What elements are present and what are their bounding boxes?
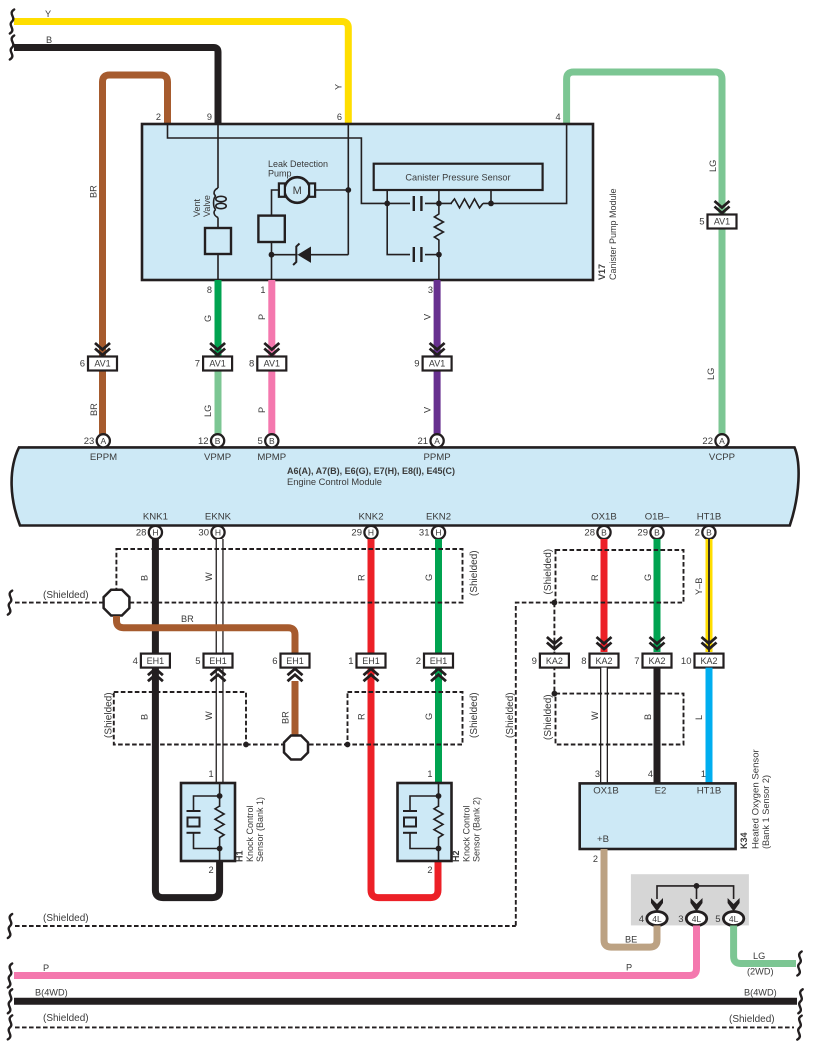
svg-text:4L: 4L bbox=[729, 914, 739, 924]
connector 4 EH1 box bbox=[141, 654, 170, 668]
motor brush right bbox=[309, 183, 315, 196]
svg-text:29: 29 bbox=[351, 528, 362, 539]
svg-text:LG: LG bbox=[708, 160, 718, 172]
svg-text:2: 2 bbox=[208, 865, 213, 875]
svg-text:EH1: EH1 bbox=[147, 656, 165, 666]
svg-text:B: B bbox=[654, 527, 660, 537]
svg-text:A: A bbox=[100, 436, 106, 446]
wire R KNK2 (red) bbox=[371, 539, 438, 898]
svg-text:R: R bbox=[357, 574, 367, 581]
wire B KNK1 (black) bbox=[155, 539, 219, 898]
break squiggles bottom bbox=[8, 1015, 12, 1039]
wire B below KA2-7 (black) bbox=[654, 668, 661, 783]
wire G O1B- (green) bbox=[654, 539, 661, 652]
knock control sensor H1 box bbox=[181, 783, 235, 861]
canister pressure sensor stub right bbox=[490, 190, 492, 203]
svg-text:(2WD): (2WD) bbox=[747, 967, 774, 977]
link wires in gray block bbox=[657, 886, 734, 899]
svg-text:9: 9 bbox=[414, 359, 419, 370]
svg-text:(Shielded): (Shielded) bbox=[543, 694, 554, 740]
motor M circle bbox=[284, 177, 310, 203]
svg-text:LG: LG bbox=[706, 368, 716, 380]
ECM pin 29 B bbox=[650, 526, 663, 539]
node dots on sensor row bbox=[384, 201, 390, 207]
svg-text:OX1B: OX1B bbox=[591, 512, 617, 523]
svg-text:P: P bbox=[626, 963, 632, 973]
connector 8 AV1 arrows bbox=[264, 343, 279, 350]
wire G from module pin 8 bbox=[215, 280, 222, 363]
svg-text:Vent: Vent bbox=[192, 198, 202, 217]
svg-text:Sensor (Bank 1): Sensor (Bank 1) bbox=[255, 797, 265, 862]
module V17 Canister Pump Module box bbox=[142, 124, 593, 280]
ECM pin 29 H bbox=[364, 526, 377, 539]
svg-text:31: 31 bbox=[419, 528, 430, 539]
connector 5 EH1 arrows bbox=[211, 669, 226, 676]
vent valve coil + wire from pin 9 bbox=[217, 124, 219, 188]
svg-text:5: 5 bbox=[715, 914, 720, 925]
lower capacitor branch wire bbox=[387, 203, 410, 254]
svg-text:(Shielded): (Shielded) bbox=[104, 692, 115, 738]
svg-text:8: 8 bbox=[581, 656, 586, 667]
svg-text:O1B–: O1B– bbox=[645, 512, 670, 523]
svg-text:R: R bbox=[357, 713, 367, 720]
svg-text:(Bank 1 Sensor 2): (Bank 1 Sensor 2) bbox=[761, 775, 771, 849]
svg-text:(Shielded): (Shielded) bbox=[505, 692, 516, 738]
svg-text:AV1: AV1 bbox=[714, 217, 730, 227]
svg-text:B(4WD): B(4WD) bbox=[35, 988, 68, 998]
connector 4 4L oval bbox=[647, 912, 667, 926]
svg-text:Y–B: Y–B bbox=[694, 578, 704, 595]
connector 7 KA2 box bbox=[643, 654, 672, 668]
svg-text:8: 8 bbox=[249, 359, 254, 370]
svg-text:M: M bbox=[293, 185, 302, 197]
node dot lower bbox=[436, 252, 442, 258]
dashed shield line bottom bbox=[15, 1026, 794, 1028]
svg-text:AV1: AV1 bbox=[264, 359, 280, 369]
svg-text:2: 2 bbox=[695, 528, 700, 539]
connector 8 KA2 arrows bbox=[597, 637, 612, 644]
svg-text:P: P bbox=[43, 963, 49, 973]
wire W EKNK (white double line) bbox=[216, 539, 224, 783]
wire resistor to pin 4 line bbox=[483, 124, 567, 203]
connector 8 AV1 box bbox=[257, 357, 286, 371]
dashed line to left margin bbox=[15, 602, 103, 604]
connector 5 AV1 box bbox=[708, 215, 737, 229]
wire motor right to vertical bbox=[315, 189, 348, 191]
svg-text:AV1: AV1 bbox=[94, 359, 110, 369]
connector 3 4L oval bbox=[686, 912, 706, 926]
wire LG (light green) right bbox=[567, 72, 722, 434]
svg-text:HT1B: HT1B bbox=[697, 786, 722, 797]
svg-text:6: 6 bbox=[80, 359, 85, 370]
svg-text:21: 21 bbox=[418, 436, 429, 447]
H2 piezo element bbox=[410, 796, 439, 811]
shield dashed box lower (O2) bbox=[556, 694, 684, 745]
svg-text:Leak Detection: Leak Detection bbox=[268, 159, 328, 169]
svg-text:28: 28 bbox=[584, 528, 595, 539]
ECM pin 22 A bbox=[715, 434, 728, 447]
svg-text:+B: +B bbox=[597, 834, 609, 845]
svg-text:HT1B: HT1B bbox=[697, 512, 722, 523]
connector 5 EH1 box bbox=[204, 654, 233, 668]
svg-text:12: 12 bbox=[198, 436, 209, 447]
svg-text:Pump: Pump bbox=[268, 169, 292, 179]
svg-text:EH1: EH1 bbox=[430, 656, 448, 666]
ECM pin 28 B bbox=[597, 526, 610, 539]
svg-text:EH1: EH1 bbox=[209, 656, 227, 666]
wire L below KA2-10 (light blue) bbox=[706, 668, 713, 783]
svg-text:W: W bbox=[204, 711, 214, 720]
ECM pin 31 H bbox=[432, 526, 445, 539]
svg-text:7: 7 bbox=[195, 359, 200, 370]
svg-text:Canister Pressure Sensor: Canister Pressure Sensor bbox=[405, 173, 510, 183]
svg-text:4L: 4L bbox=[652, 914, 662, 924]
resistor horizontal bbox=[451, 199, 483, 208]
wire Y-B HT1B (yellow-black) bbox=[706, 539, 713, 652]
svg-text:7: 7 bbox=[634, 656, 639, 667]
ECM pin 28 H bbox=[149, 526, 162, 539]
connector 6 AV1 arrows bbox=[95, 343, 110, 350]
svg-text:V: V bbox=[423, 313, 433, 320]
connector 2 EH1 box bbox=[424, 654, 453, 668]
svg-text:2: 2 bbox=[593, 854, 598, 864]
svg-text:4: 4 bbox=[639, 914, 644, 925]
svg-text:BR: BR bbox=[181, 614, 194, 624]
svg-text:B: B bbox=[601, 527, 607, 537]
gray connector block bbox=[631, 874, 749, 925]
H2 internal resistor bbox=[438, 783, 440, 807]
wire BR below EH1-6 to shield octagon 2 bbox=[292, 681, 299, 736]
connector 6 AV1 box bbox=[88, 357, 117, 371]
svg-text:P: P bbox=[257, 314, 267, 320]
ECM pin 23 A bbox=[97, 434, 110, 447]
capacitor C lower bbox=[413, 247, 415, 262]
svg-text:30: 30 bbox=[198, 528, 209, 539]
connector 9 AV1 arrows bbox=[430, 343, 445, 350]
svg-text:A6(A), A7(B), E6(G), E7(H), E8: A6(A), A7(B), E6(G), E7(H), E8(I), E45(C… bbox=[287, 466, 455, 476]
break squiggle LG right bbox=[797, 952, 801, 976]
svg-text:VPMP: VPMP bbox=[204, 452, 231, 463]
svg-text:8: 8 bbox=[207, 285, 212, 295]
svg-text:5: 5 bbox=[258, 436, 263, 447]
svg-text:B: B bbox=[643, 714, 653, 720]
pump relay box bbox=[258, 216, 284, 242]
ECM pin 12 B bbox=[211, 434, 224, 447]
break squiggle left shield bbox=[8, 591, 12, 615]
ECM pin 21 A bbox=[431, 434, 444, 447]
svg-text:Sensor (Bank 2): Sensor (Bank 2) bbox=[472, 797, 482, 862]
capacitor C upper bbox=[413, 196, 415, 211]
svg-text:B: B bbox=[140, 575, 150, 581]
svg-text:4: 4 bbox=[555, 112, 560, 122]
svg-text:4: 4 bbox=[648, 769, 653, 779]
wire BR (brown) bbox=[103, 75, 168, 434]
svg-text:KNK2: KNK2 bbox=[358, 512, 383, 523]
wire BR shield to EH1-6 bbox=[117, 616, 296, 654]
svg-text:(Shielded): (Shielded) bbox=[43, 1013, 89, 1024]
svg-text:5: 5 bbox=[699, 217, 704, 228]
svg-text:EKN2: EKN2 bbox=[426, 512, 451, 523]
svg-text:2: 2 bbox=[156, 112, 161, 122]
connector 5 AV1 arrows bbox=[715, 201, 730, 208]
svg-text:2: 2 bbox=[416, 656, 421, 667]
knock control sensor H2 box bbox=[398, 783, 452, 861]
svg-text:H: H bbox=[152, 527, 158, 537]
svg-text:LG: LG bbox=[203, 405, 213, 417]
vent valve box bbox=[205, 228, 231, 254]
svg-text:KA2: KA2 bbox=[546, 656, 563, 666]
break squiggle Y left bbox=[10, 10, 14, 34]
heated oxygen sensor K34 box bbox=[580, 783, 736, 849]
svg-text:(Shielded): (Shielded) bbox=[43, 913, 89, 924]
svg-text:B: B bbox=[46, 35, 52, 45]
svg-text:28: 28 bbox=[136, 528, 147, 539]
svg-text:H1: H1 bbox=[235, 850, 245, 862]
svg-text:9: 9 bbox=[207, 112, 212, 122]
connector 6 EH1 box bbox=[281, 654, 310, 668]
svg-text:Valve: Valve bbox=[202, 195, 212, 217]
svg-text:1: 1 bbox=[427, 769, 432, 779]
svg-text:OX1B: OX1B bbox=[593, 786, 619, 797]
wire Y (yellow) top bbox=[14, 22, 348, 125]
svg-text:Engine Control Module: Engine Control Module bbox=[287, 477, 382, 487]
svg-text:A: A bbox=[719, 436, 725, 446]
svg-text:(Shielded): (Shielded) bbox=[543, 549, 554, 595]
svg-text:LG: LG bbox=[753, 951, 765, 961]
wire B(4WD) bbox=[14, 998, 797, 1005]
wire cap to resistor row bbox=[425, 202, 452, 204]
svg-text:KNK1: KNK1 bbox=[143, 512, 168, 523]
svg-text:(Shielded): (Shielded) bbox=[729, 1014, 775, 1025]
connector 5 4L arrow bbox=[728, 898, 740, 912]
svg-text:B: B bbox=[706, 527, 712, 537]
svg-text:G: G bbox=[643, 574, 653, 581]
wire V from module pin 3 bbox=[434, 280, 441, 434]
connector 1 EH1 box bbox=[357, 654, 386, 668]
svg-text:(Shielded): (Shielded) bbox=[469, 692, 480, 738]
canister pressure sensor stub mid bbox=[438, 190, 440, 203]
svg-text:3: 3 bbox=[428, 285, 433, 295]
svg-text:2: 2 bbox=[427, 865, 432, 875]
dashed shield line mid-bottom bbox=[15, 925, 516, 927]
svg-text:4: 4 bbox=[133, 656, 138, 667]
svg-text:MPMP: MPMP bbox=[257, 452, 286, 463]
svg-text:G: G bbox=[203, 315, 213, 322]
connector 9 KA2 box bbox=[540, 654, 569, 668]
svg-text:KA2: KA2 bbox=[648, 656, 665, 666]
svg-text:(Shielded): (Shielded) bbox=[43, 590, 89, 601]
svg-text:3: 3 bbox=[678, 914, 683, 925]
ECM pin 2 B bbox=[702, 526, 715, 539]
svg-text:EH1: EH1 bbox=[286, 656, 304, 666]
svg-text:6: 6 bbox=[272, 656, 277, 667]
svg-text:V: V bbox=[423, 406, 433, 413]
wire LG below AV1-7 bbox=[215, 363, 222, 434]
shield dashed box upper (O2) bbox=[556, 550, 684, 603]
canister pressure sensor stub left bbox=[386, 190, 388, 203]
svg-text:BR: BR bbox=[89, 403, 99, 416]
connector 10 KA2 box bbox=[695, 654, 724, 668]
Canister Pressure Sensor box bbox=[374, 164, 543, 190]
svg-text:KA2: KA2 bbox=[700, 656, 717, 666]
svg-text:V17: V17 bbox=[597, 264, 607, 280]
svg-text:Heated Oxygen Sensor: Heated Oxygen Sensor bbox=[751, 748, 762, 849]
svg-text:EH1: EH1 bbox=[362, 656, 380, 666]
wire P from module pin 1 bbox=[268, 280, 275, 434]
svg-text:R: R bbox=[590, 574, 600, 581]
wire motor left down through relay box bbox=[272, 190, 279, 216]
svg-text:B(4WD): B(4WD) bbox=[744, 988, 777, 998]
svg-text:G: G bbox=[424, 574, 434, 581]
svg-text:9: 9 bbox=[532, 656, 537, 667]
shield octagon 1 bbox=[104, 590, 130, 616]
svg-text:AV1: AV1 bbox=[209, 359, 225, 369]
break squiggle B left bbox=[10, 36, 14, 60]
connector 5 4L oval bbox=[723, 912, 743, 926]
connector 7 KA2 arrows bbox=[650, 637, 665, 644]
svg-text:EKNK: EKNK bbox=[205, 512, 232, 523]
motor brush left bbox=[279, 183, 285, 196]
svg-text:Y: Y bbox=[45, 9, 51, 19]
svg-text:(Shielded): (Shielded) bbox=[469, 550, 480, 596]
pump internal vertical from pin 6 bbox=[347, 124, 349, 255]
H1 piezo element bbox=[194, 796, 220, 811]
break squiggle bbox=[8, 914, 12, 938]
svg-text:BR: BR bbox=[281, 711, 291, 724]
svg-text:1: 1 bbox=[701, 769, 706, 779]
wire B (black) top bbox=[14, 48, 218, 125]
zener diode bbox=[298, 247, 312, 263]
svg-text:5: 5 bbox=[195, 656, 200, 667]
connector 3 4L arrow bbox=[691, 898, 703, 912]
dashed vertical through KA2-9 bbox=[553, 603, 555, 694]
svg-text:29: 29 bbox=[637, 528, 648, 539]
svg-text:BE: BE bbox=[625, 935, 637, 945]
wire P from 4L-3 to left margin bbox=[14, 926, 697, 976]
resistor vertical bbox=[434, 203, 443, 254]
svg-text:B: B bbox=[269, 436, 275, 446]
svg-text:P: P bbox=[257, 407, 267, 413]
break squiggles B(4WD) bbox=[8, 989, 12, 1013]
ECM pin 30 H bbox=[211, 526, 224, 539]
connector 1 EH1 arrows bbox=[364, 669, 379, 676]
H1 internal resistor bbox=[219, 783, 221, 807]
wire G EKN2 (green) bbox=[435, 539, 442, 783]
svg-text:6: 6 bbox=[337, 112, 342, 122]
ECM pin 5 B bbox=[265, 434, 278, 447]
internal wire from pin 2 to sensor network bbox=[168, 124, 411, 203]
svg-text:22: 22 bbox=[702, 436, 713, 447]
connector 7 AV1 arrows bbox=[210, 343, 225, 350]
ECM band (Engine Control Module) bbox=[12, 447, 799, 525]
svg-text:W: W bbox=[204, 572, 214, 581]
svg-text:23: 23 bbox=[84, 436, 95, 447]
svg-text:1: 1 bbox=[208, 769, 213, 779]
connector 8 KA2 box bbox=[590, 654, 619, 668]
dashed link between lower boxes bbox=[246, 744, 348, 746]
svg-text:W: W bbox=[590, 711, 600, 720]
svg-text:AV1: AV1 bbox=[429, 359, 445, 369]
svg-text:H: H bbox=[435, 527, 441, 537]
svg-text:Canister Pump Module: Canister Pump Module bbox=[608, 188, 618, 280]
svg-text:Knock Control: Knock Control bbox=[245, 805, 255, 862]
connector 2 EH1 arrows bbox=[431, 669, 446, 676]
connector 4 EH1 arrows bbox=[148, 669, 163, 676]
svg-text:EPPM: EPPM bbox=[90, 452, 117, 463]
svg-text:E2: E2 bbox=[655, 786, 667, 797]
svg-text:10: 10 bbox=[681, 656, 692, 667]
svg-text:L: L bbox=[694, 715, 704, 720]
svg-text:1: 1 bbox=[260, 285, 265, 295]
shield dashed box lower-left bbox=[114, 692, 246, 745]
svg-text:4L: 4L bbox=[692, 914, 702, 924]
shield dashed box upper (knock) bbox=[116, 549, 462, 603]
svg-text:B: B bbox=[140, 714, 150, 720]
connector 9 KA2 arrows bbox=[547, 637, 562, 644]
connector 6 EH1 arrows bbox=[288, 669, 303, 676]
svg-text:Y: Y bbox=[334, 84, 344, 90]
svg-text:KA2: KA2 bbox=[595, 656, 612, 666]
node dots on shield link bbox=[243, 742, 249, 748]
svg-text:BR: BR bbox=[89, 185, 99, 198]
connector 7 AV1 box bbox=[203, 357, 232, 371]
shield octagon 2 bbox=[284, 736, 308, 760]
connector 9 AV1 box bbox=[423, 357, 452, 371]
svg-text:H: H bbox=[215, 527, 221, 537]
shield dashed box lower-right bbox=[348, 692, 463, 745]
svg-text:B: B bbox=[215, 436, 221, 446]
svg-text:VCPP: VCPP bbox=[709, 452, 735, 463]
svg-text:A: A bbox=[434, 436, 440, 446]
svg-text:PPMP: PPMP bbox=[423, 452, 450, 463]
connector 10 KA2 arrows bbox=[702, 637, 717, 644]
wire LG from 4L-5 to right (2WD) bbox=[734, 926, 796, 964]
wire BE from +B pin 2 to 4L-4 bbox=[604, 849, 657, 947]
wire W below KA2-8 (white double) bbox=[600, 668, 608, 783]
svg-text:H: H bbox=[368, 527, 374, 537]
svg-text:H2: H2 bbox=[451, 850, 461, 862]
svg-text:G: G bbox=[424, 713, 434, 720]
wire R OX1B (red) bbox=[601, 539, 608, 652]
break squiggle P left bbox=[8, 964, 12, 988]
connector 4 4L arrow bbox=[651, 898, 663, 912]
svg-text:1: 1 bbox=[348, 656, 353, 667]
svg-text:K34: K34 bbox=[739, 832, 749, 849]
dashed shield path to left and down bbox=[516, 603, 555, 926]
svg-text:Knock Control: Knock Control bbox=[462, 805, 472, 862]
wire to pin 3 bbox=[438, 255, 440, 280]
svg-text:3: 3 bbox=[595, 769, 600, 779]
